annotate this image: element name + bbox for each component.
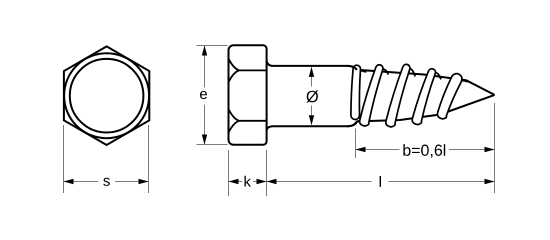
e extension tick top: [197, 45, 228, 47]
k label: [245, 176, 252, 187]
head outline: [229, 45, 267, 145]
thread band 3: [386, 64, 415, 127]
diameter dimension line: [311, 68, 313, 125]
thread root cone bottom: [357, 95, 495, 122]
thread band 2: [360, 65, 389, 126]
s extension line right: [148, 125, 150, 193]
k arrow right: [257, 179, 267, 184]
b arrow left: [356, 147, 366, 152]
k extension line left: [228, 150, 230, 196]
diameter label: [307, 90, 319, 102]
s dimension line: [64, 181, 149, 183]
washer face circle inner: [70, 59, 144, 133]
b dimension line: [356, 149, 495, 151]
shank top line: [267, 61, 357, 71]
b extension line: [355, 129, 357, 159]
thread root cone top: [357, 70, 495, 95]
e label: [200, 91, 207, 99]
e arrow up: [202, 46, 207, 56]
k extension line right: [266, 150, 268, 196]
b label: [403, 144, 445, 158]
l dimension line: [267, 181, 495, 183]
head facet line lower: [229, 110, 267, 132]
s arrow right: [139, 179, 149, 184]
l arrow left: [267, 179, 277, 184]
diameter arrow up: [309, 67, 314, 77]
l label: [380, 176, 381, 187]
k dimension line: [229, 181, 267, 183]
e extension tick bottom: [197, 144, 228, 146]
s extension line left: [63, 125, 65, 193]
l arrow right: [485, 179, 495, 184]
e dimension line: [204, 46, 206, 145]
thread band 5: [438, 74, 469, 119]
k arrow left: [229, 179, 239, 184]
hexagon outline: [64, 46, 149, 145]
thread band 4: [412, 69, 441, 125]
e arrow down: [202, 135, 207, 145]
diameter arrow down: [309, 115, 314, 125]
chamfer circle outer: [64, 53, 149, 138]
s label: [103, 178, 110, 186]
b arrow right: [485, 147, 495, 152]
s arrow left: [64, 179, 74, 184]
head facet line upper: [229, 59, 267, 81]
shank bottom line: [267, 122, 357, 130]
l/b right extension line: [494, 103, 496, 193]
screw body fill: [229, 45, 495, 145]
thread band 1: [351, 65, 367, 119]
thread runout restroke over band 1: [347, 66, 361, 126]
front view hex head: [64, 46, 149, 145]
